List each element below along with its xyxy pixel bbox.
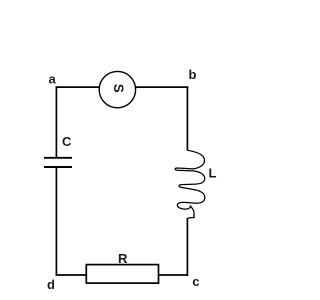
AC source S (circle)	[99, 71, 135, 107]
svg-text:d: d	[47, 277, 55, 292]
wire inductor down to c (right lower vertical)	[186, 218, 188, 276]
svg-text:C: C	[62, 134, 72, 149]
svg-text:R: R	[118, 251, 128, 266]
inductor L (hand-drawn coil)	[175, 150, 205, 218]
capacitor C top plate	[44, 157, 72, 159]
wire a down to capacitor (left upper vertical)	[55, 86, 57, 157]
svg-text:a: a	[49, 72, 57, 87]
svg-text:L: L	[209, 166, 217, 181]
svg-text:b: b	[189, 67, 197, 82]
svg-text:S: S	[111, 84, 126, 93]
wire resistor to c (bottom right horizontal)	[159, 274, 189, 276]
wire b down to inductor (right upper vertical)	[186, 86, 188, 150]
resistor R (box)	[86, 265, 158, 284]
wire a to source (top left horizontal)	[56, 86, 100, 88]
wire source to b (top right horizontal)	[135, 86, 188, 88]
wire capacitor down to d (left lower vertical)	[55, 167, 57, 276]
wire d to resistor (bottom left horizontal)	[56, 274, 87, 276]
capacitor C bottom plate	[44, 166, 72, 168]
svg-text:c: c	[192, 274, 199, 289]
